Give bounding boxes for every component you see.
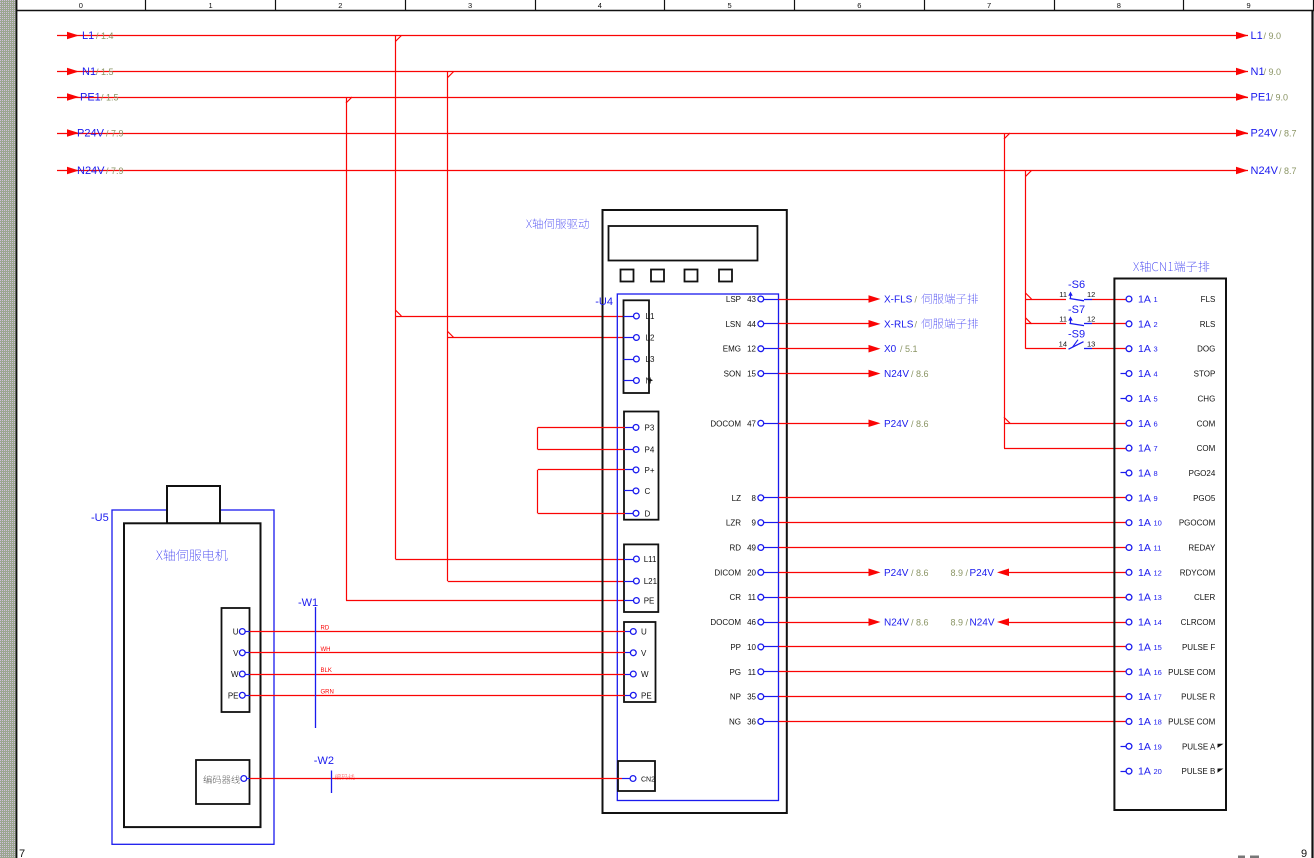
- svg-text:6: 6: [857, 1, 861, 10]
- svg-text:X-FLS: X-FLS: [884, 295, 913, 306]
- svg-text:PE: PE: [644, 597, 655, 606]
- svg-text:1A: 1A: [1138, 691, 1151, 703]
- svg-text:2: 2: [338, 1, 342, 10]
- svg-text:/ 1.5: / 1.5: [101, 93, 119, 103]
- svg-text:DICOM: DICOM: [714, 568, 741, 577]
- svg-text:N1: N1: [82, 66, 96, 78]
- svg-text:1A: 1A: [1138, 567, 1151, 579]
- svg-text:1A: 1A: [1138, 368, 1151, 380]
- svg-text:1A: 1A: [1138, 542, 1151, 554]
- svg-text:PULSE R: PULSE R: [1181, 693, 1215, 702]
- svg-text:-W2: -W2: [314, 755, 334, 767]
- svg-text:PE: PE: [228, 691, 239, 700]
- svg-text:X-RLS: X-RLS: [884, 319, 914, 330]
- svg-text:LZ: LZ: [732, 494, 741, 503]
- svg-text:P24V: P24V: [77, 128, 105, 140]
- svg-text:43: 43: [747, 295, 756, 304]
- svg-text:L3: L3: [646, 355, 655, 364]
- svg-text:15: 15: [1154, 643, 1162, 652]
- svg-text:L1: L1: [646, 312, 655, 321]
- svg-text:/ 9.0: / 9.0: [1271, 93, 1289, 103]
- svg-text:N24V: N24V: [884, 369, 909, 380]
- svg-text:P24V: P24V: [1251, 128, 1279, 140]
- svg-text:LSN: LSN: [725, 320, 741, 329]
- svg-text:C: C: [645, 487, 651, 496]
- svg-text:PGOCOM: PGOCOM: [1179, 519, 1216, 528]
- svg-text:X0: X0: [884, 344, 897, 355]
- svg-text:REDAY: REDAY: [1188, 544, 1216, 553]
- svg-text:/ 1.5: / 1.5: [96, 67, 114, 77]
- svg-text:/ 8.6: / 8.6: [911, 369, 929, 379]
- svg-text:-S9: -S9: [1068, 329, 1085, 341]
- svg-text:/ 5.1: / 5.1: [900, 344, 918, 354]
- svg-text:12: 12: [747, 345, 756, 354]
- svg-text:44: 44: [747, 320, 756, 329]
- svg-text:1: 1: [209, 1, 213, 10]
- svg-text:1A: 1A: [1138, 666, 1151, 678]
- svg-text:-S7: -S7: [1068, 304, 1085, 316]
- svg-text:4: 4: [598, 1, 602, 10]
- svg-text:L21: L21: [644, 577, 658, 586]
- svg-text:1A: 1A: [1138, 617, 1151, 629]
- svg-text:1A: 1A: [1138, 641, 1151, 653]
- svg-text:12: 12: [1154, 568, 1162, 577]
- svg-text:11: 11: [1154, 544, 1162, 553]
- svg-text:20: 20: [1154, 767, 1162, 776]
- svg-text:6: 6: [1154, 419, 1158, 428]
- svg-text:SON: SON: [724, 370, 742, 379]
- svg-text:PE1: PE1: [1251, 92, 1272, 104]
- svg-text:1A: 1A: [1138, 592, 1151, 604]
- svg-text:PULSE A: PULSE A: [1182, 742, 1216, 751]
- svg-text:L1: L1: [82, 30, 94, 42]
- svg-text:PP: PP: [730, 643, 741, 652]
- svg-text:CLER: CLER: [1194, 593, 1216, 602]
- svg-text:P3: P3: [645, 423, 655, 432]
- svg-text:8.9 /: 8.9 /: [951, 568, 969, 578]
- svg-text:17: 17: [1154, 693, 1162, 702]
- svg-text:NG: NG: [729, 717, 741, 726]
- svg-text:-S6: -S6: [1068, 279, 1085, 291]
- svg-text:-U4: -U4: [595, 296, 613, 308]
- svg-text:11: 11: [748, 593, 757, 602]
- svg-text:/ 9.0: / 9.0: [1264, 31, 1282, 41]
- svg-text:8: 8: [752, 494, 757, 503]
- svg-text:N24V: N24V: [884, 618, 909, 629]
- svg-text:7: 7: [1154, 444, 1158, 453]
- svg-text:12: 12: [1087, 315, 1095, 324]
- svg-text:8.9 /: 8.9 /: [951, 618, 969, 628]
- svg-text:/ 8.7: / 8.7: [1279, 129, 1297, 139]
- svg-text:CN2: CN2: [641, 777, 655, 784]
- svg-text:11: 11: [1059, 315, 1067, 324]
- svg-text:-U5: -U5: [91, 512, 109, 524]
- svg-text:9: 9: [1154, 494, 1158, 503]
- svg-text:V: V: [641, 649, 647, 658]
- svg-text:RDYCOM: RDYCOM: [1180, 568, 1216, 577]
- svg-text:PE: PE: [641, 691, 652, 700]
- svg-text:1A: 1A: [1138, 716, 1151, 728]
- svg-text:GRN: GRN: [321, 689, 334, 695]
- svg-text:COM: COM: [1197, 444, 1216, 453]
- svg-text:3: 3: [468, 1, 472, 10]
- svg-text:RD: RD: [321, 626, 330, 632]
- svg-text:L11: L11: [644, 555, 657, 564]
- svg-text:CLRCOM: CLRCOM: [1181, 618, 1216, 627]
- svg-text:1A: 1A: [1138, 418, 1151, 430]
- svg-text:W: W: [231, 670, 239, 679]
- svg-text:9: 9: [752, 519, 757, 528]
- svg-text:0: 0: [79, 1, 83, 10]
- svg-text:N24V: N24V: [1251, 165, 1279, 177]
- svg-text:L2: L2: [646, 334, 655, 343]
- svg-text:13: 13: [1087, 340, 1095, 349]
- svg-text:1A: 1A: [1138, 443, 1151, 455]
- svg-text:LSP: LSP: [726, 295, 741, 304]
- svg-text:16: 16: [1154, 668, 1162, 677]
- svg-text:NP: NP: [730, 693, 741, 702]
- svg-text:7: 7: [19, 848, 25, 858]
- svg-text:3: 3: [1154, 345, 1158, 354]
- svg-text:WH: WH: [321, 647, 331, 653]
- svg-text:N24V: N24V: [970, 618, 995, 629]
- svg-text:8: 8: [1117, 1, 1121, 10]
- svg-text:1A: 1A: [1138, 741, 1151, 753]
- svg-text:1A: 1A: [1138, 343, 1151, 355]
- svg-text:DOG: DOG: [1197, 345, 1215, 354]
- svg-text:1A: 1A: [1138, 393, 1151, 405]
- svg-text:5: 5: [1154, 394, 1158, 403]
- svg-text:CR: CR: [729, 593, 741, 602]
- svg-text:DOCOM: DOCOM: [710, 419, 741, 428]
- svg-text:W: W: [641, 670, 649, 679]
- svg-text:15: 15: [747, 370, 756, 379]
- svg-text:PE1: PE1: [80, 92, 101, 104]
- svg-text:35: 35: [747, 693, 756, 702]
- svg-text:14: 14: [1154, 618, 1162, 627]
- svg-text:PGO24: PGO24: [1189, 469, 1216, 478]
- svg-text:U: U: [641, 628, 647, 637]
- svg-text:9: 9: [1247, 1, 1251, 10]
- svg-text:14: 14: [1059, 340, 1067, 349]
- svg-text:1: 1: [1154, 295, 1158, 304]
- svg-text:11: 11: [748, 668, 757, 677]
- svg-text:9: 9: [1301, 848, 1307, 858]
- svg-text:1A: 1A: [1138, 492, 1151, 504]
- svg-text:LZR: LZR: [726, 519, 741, 528]
- svg-text:D: D: [645, 509, 651, 518]
- svg-text:P24V: P24V: [970, 568, 995, 579]
- svg-text:2: 2: [1154, 320, 1158, 329]
- svg-text:EMG: EMG: [723, 345, 741, 354]
- svg-text:RLS: RLS: [1200, 320, 1216, 329]
- svg-text:STOP: STOP: [1194, 370, 1216, 379]
- svg-text:4: 4: [1154, 370, 1158, 379]
- svg-text:V: V: [233, 649, 239, 658]
- svg-text:10: 10: [1154, 519, 1162, 528]
- svg-text:COM: COM: [1197, 419, 1216, 428]
- svg-text:18: 18: [1154, 717, 1162, 726]
- svg-text:1A: 1A: [1138, 318, 1151, 330]
- svg-text:11: 11: [1059, 290, 1067, 299]
- svg-text:P24V: P24V: [884, 419, 909, 430]
- svg-text:FLS: FLS: [1201, 295, 1216, 304]
- svg-text:36: 36: [747, 717, 756, 726]
- svg-text:/ 1.4: / 1.4: [96, 31, 114, 41]
- svg-text:N24V: N24V: [77, 165, 105, 177]
- svg-text:/ 8.7: / 8.7: [1279, 166, 1297, 176]
- svg-text:1A: 1A: [1138, 766, 1151, 778]
- svg-text:/ 7.9: / 7.9: [106, 166, 124, 176]
- svg-text:12: 12: [1087, 290, 1095, 299]
- svg-text:7: 7: [987, 1, 991, 10]
- svg-text:N1: N1: [1251, 66, 1265, 78]
- svg-text:13: 13: [1154, 593, 1162, 602]
- svg-text:RD: RD: [729, 544, 741, 553]
- svg-text:5: 5: [728, 1, 732, 10]
- svg-text:/ 8.6: / 8.6: [911, 568, 929, 578]
- svg-text:19: 19: [1154, 742, 1162, 751]
- svg-text:U: U: [233, 628, 239, 637]
- svg-text:PULSE F: PULSE F: [1182, 643, 1215, 652]
- svg-text:PG: PG: [729, 668, 741, 677]
- svg-text:CHG: CHG: [1198, 394, 1216, 403]
- svg-text:PULSE B: PULSE B: [1182, 767, 1216, 776]
- svg-text:1A: 1A: [1138, 467, 1151, 479]
- svg-text:/ 8.6: / 8.6: [911, 618, 929, 628]
- svg-text:/ 7.9: / 7.9: [106, 129, 124, 139]
- svg-text:49: 49: [747, 544, 756, 553]
- svg-text:10: 10: [747, 643, 756, 652]
- svg-text:20: 20: [747, 568, 756, 577]
- svg-text:1A: 1A: [1138, 294, 1151, 306]
- svg-text:8: 8: [1154, 469, 1158, 478]
- svg-text:BLK: BLK: [321, 668, 332, 674]
- svg-text:L1: L1: [1251, 30, 1263, 42]
- svg-text:47: 47: [747, 419, 756, 428]
- svg-text:46: 46: [747, 618, 756, 627]
- svg-text:PULSE COM: PULSE COM: [1168, 717, 1215, 726]
- svg-text:1A: 1A: [1138, 517, 1151, 529]
- svg-text:P+: P+: [645, 466, 655, 475]
- svg-text:/ 8.6: / 8.6: [911, 419, 929, 429]
- svg-text:PGO5: PGO5: [1193, 494, 1216, 503]
- svg-text:P24V: P24V: [884, 568, 909, 579]
- svg-text:PULSE COM: PULSE COM: [1168, 668, 1215, 677]
- svg-text:/ 9.0: / 9.0: [1264, 67, 1282, 77]
- svg-text:DOCOM: DOCOM: [710, 618, 741, 627]
- svg-text:P4: P4: [645, 446, 655, 455]
